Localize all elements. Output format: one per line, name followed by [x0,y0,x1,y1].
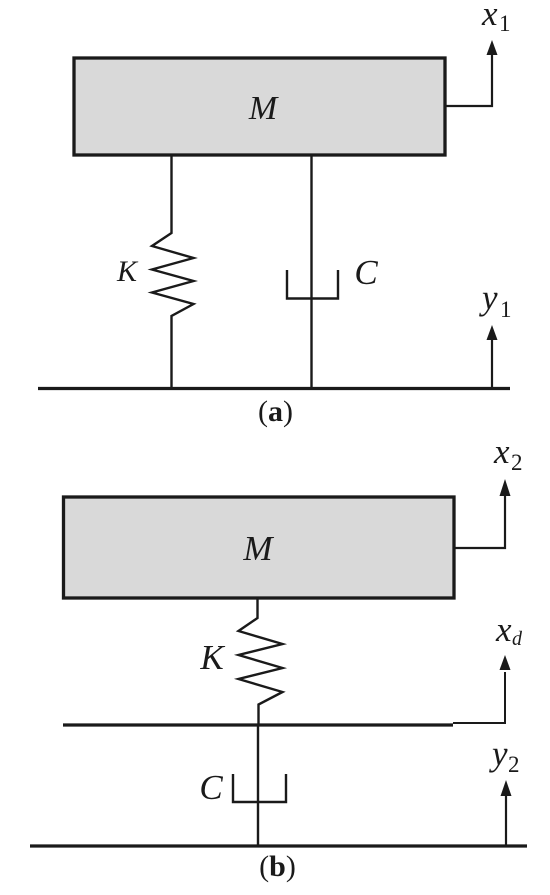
svg-text:2: 2 [511,450,523,475]
damper cup C (b) [233,774,286,802]
svg-text:K: K [116,255,139,288]
ground line (a) [38,387,510,390]
damper rod (b) [257,725,259,846]
svg-text:(b): (b) [259,850,296,883]
svg-text:M: M [248,90,279,127]
svg-text:1: 1 [499,11,511,36]
svg-text:C: C [354,253,378,292]
damper rod (a) [310,155,312,388]
y1 arrow stem (a) [491,339,493,388]
svg-text:M: M [242,529,274,568]
mass M box (b) [64,497,455,598]
svg-text:(a): (a) [258,395,293,428]
middle plate line (b) [63,723,453,726]
y1 arrowhead [487,325,498,340]
spring K (b) [239,598,283,725]
svg-text:K: K [199,638,225,677]
spring K (a) [152,155,194,388]
svg-text:y: y [479,278,498,317]
x2 arrowhead [500,479,511,496]
damper cup C (a) [287,270,338,299]
x1 arrowhead [487,40,498,55]
x2 connector wire (b) [454,496,505,548]
svg-text:x: x [493,432,510,471]
xd connector wire (b) [453,672,505,723]
x1 connector wire (a) [445,54,492,106]
svg-text:y: y [489,734,508,773]
svg-text:2: 2 [508,752,520,777]
y2 arrow stem (b) [505,796,507,845]
svg-text:d: d [512,628,523,650]
mass M box (a) [74,58,445,155]
xd arrowhead [500,655,511,670]
svg-text:x: x [495,610,512,649]
svg-text:1: 1 [500,297,512,322]
svg-text:x: x [481,0,498,33]
ground line (b) [30,844,527,847]
y2 arrowhead [501,780,512,796]
svg-text:C: C [199,768,223,807]
